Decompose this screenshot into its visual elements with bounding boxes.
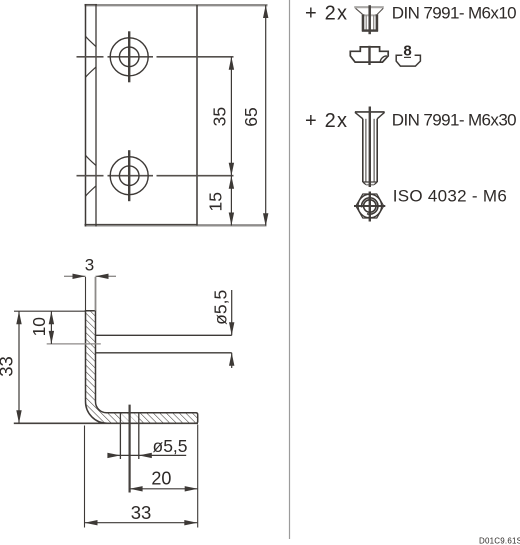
dimension 65 line [265,5,267,226]
svg-text:35: 35 [210,107,230,126]
hex nut vertical centerline [369,192,371,222]
screw S1 thread line left [365,15,367,30]
dimension o5,5 lower arrow left-pointing [139,453,152,458]
hole H2 bore circle [119,166,139,186]
screw S2 shank right [376,119,378,182]
dimension o5,5 vertical line lower [231,353,233,368]
screw S1 shank left [362,14,365,31]
hex nut bore circle [364,200,376,212]
dimension 33 bottom arrow left [85,520,98,525]
plate bottom edge + extension line [85,224,267,226]
extension line 3-dim right [95,277,97,311]
hole slot line lower (projection) [96,352,232,354]
svg-text:33: 33 [0,356,17,377]
hole H1 vertical centerline [128,31,130,82]
svg-text:+ 2x: + 2x [305,110,348,132]
hole H2 counterbore circle [110,157,148,195]
plate bend line [95,4,97,227]
leg hole centerline [129,405,131,493]
slot profile outline [396,55,420,66]
extension line bottom (33 left) [14,422,198,424]
svg-text:3: 3 [85,256,94,275]
hex nut thread arc [362,198,378,214]
dimension 35 arrow down [229,163,234,176]
dimension 10 arrow down [49,331,54,344]
extension line 33 bottom left [84,426,86,528]
dimension 15 arrow down [229,213,234,226]
dimension 3 line right part [96,275,117,277]
bend mark upper at hole 1 [86,36,97,46]
screw S1 shank right [376,14,379,31]
svg-text:DIN 7991- M6x30: DIN 7991- M6x30 [392,111,516,130]
dimension 20 arrow right [185,486,198,491]
dimension 33 left arrow down [16,410,21,423]
hex nut horizontal centerline [354,205,385,207]
bend mark lower at hole 2 [86,186,97,196]
screw S1 head top edge [354,6,384,8]
dimension o5,5 lower arrow right-pointing [107,453,120,458]
screw S2 tip chamfer left [363,182,366,185]
dimension 33 left line [18,311,20,423]
dimension 33 left arrow up [16,311,21,324]
svg-text:D01C9.61S: D01C9.61S [479,537,520,545]
svg-text:DIN 7991- M6x10: DIN 7991- M6x10 [392,4,516,23]
plate right edge [196,5,198,226]
T-nut N1 centerline [368,46,370,65]
svg-text:33: 33 [131,502,152,523]
dimension 65 arrow down [263,213,268,226]
plate bottom edge dark overlay [85,224,198,226]
dimension 10 line [50,311,52,344]
leg hole edge left [119,413,121,459]
dimension 15 line [230,176,232,226]
screw S2 tip line [363,181,377,183]
dimension 3 arrow left-pointing [96,274,109,279]
extension line 33/20 bottom right [197,425,199,528]
screw S1 head left taper [356,8,363,14]
svg-text:ISO 4032 - M6: ISO 4032 - M6 [393,187,507,206]
hex nut chamfer circle [358,194,382,218]
svg-text:15: 15 [206,192,226,211]
screw S2 head top edge [355,111,385,113]
extension line hole center (10) [47,343,101,345]
leg hole edge right [138,413,140,459]
bend mark lower at hole 1 [86,67,97,77]
svg-text:ø5,5: ø5,5 [210,290,230,325]
hex nut hexagon [356,194,384,218]
screw S1 tip bottom [362,29,378,31]
svg-text:65: 65 [241,107,261,126]
T-nut N1 spring line [380,56,387,62]
screw S2 head left taper [355,112,363,119]
plate left edge [85,4,87,227]
screw S1 thread line right [373,15,375,30]
plate top edge + extension line to 65 dim [85,4,268,6]
screw S2 thread line right [373,119,375,182]
hole slot line upper (projection) [96,334,232,336]
dimension o5,5 lower line [108,454,187,456]
screw S2 centerline [369,107,371,188]
svg-text:10: 10 [29,317,49,337]
hole H1 counterbore circle [110,38,148,76]
svg-text:+ 2x: + 2x [305,2,348,24]
extension line 3-dim left [85,277,87,311]
dimension 33 bottom arrow right [184,520,197,525]
slot profile label 8 underline [404,56,411,58]
L profile hatched body [86,311,198,424]
dimension 15 arrow up [229,176,234,189]
dimension 35 arrow up [229,57,234,70]
dimension 3 arrow right-pointing [73,274,86,279]
L profile outline [86,311,198,424]
hole H1 bore circle [119,47,139,67]
hole H2 vertical centerline [128,150,130,201]
screw S1 head bottom band [362,14,378,16]
screw S2 thread line left [365,119,367,182]
hole H1 horizontal centerline [77,56,234,58]
dimension o5,5 arrow down [229,322,234,335]
screw S2 shank left [362,119,364,182]
screw S2 head right taper [377,112,384,119]
T-nut N1 outline [350,47,388,62]
screw S2 tip chamfer right [374,182,377,185]
dimension 10 arrow up [49,311,54,324]
dimension 20 arrow left [130,486,143,491]
dimension 35 line [230,57,232,176]
dimension 33 bottom line [85,522,198,524]
dimension 3 line left part [64,275,86,277]
bend mark upper at hole 2 [86,155,97,165]
dimension o5,5 vertical line upper [231,290,233,335]
svg-text:20: 20 [151,469,171,489]
panel divider line [289,0,291,539]
extension line top (33/10) [14,310,86,312]
dimension o5,5 arrow up [229,353,234,366]
svg-text:ø5,5: ø5,5 [153,436,188,456]
plate top edge dark overlay [85,4,98,6]
dimension 65 arrow up [263,5,268,18]
screw S2 tip bottom [366,184,374,186]
hatch lightened zone at hole [121,412,138,425]
hole H2 horizontal centerline [77,175,234,177]
screw S1 head right taper [377,8,383,14]
dimension 20 line [130,488,198,490]
screw S1 centerline [368,5,371,34]
